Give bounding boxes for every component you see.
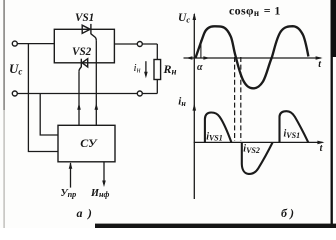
thyristor module box bbox=[54, 29, 114, 63]
svg-text:Uс: Uс bbox=[178, 12, 190, 24]
wire to resistor top bbox=[156, 44, 158, 60]
svg-text:iн: iн bbox=[134, 62, 141, 75]
in time axis bbox=[194, 141, 323, 143]
graph vertical axis bbox=[193, 14, 195, 199]
thyristor VS2 bbox=[79, 59, 88, 72]
wire bottom rail bbox=[17, 93, 157, 95]
left page-edge line bbox=[3, 0, 5, 110]
Upr arrowhead bbox=[69, 162, 73, 169]
wire branch B to CU bbox=[40, 94, 58, 136]
svg-text:VS2: VS2 bbox=[72, 46, 92, 58]
svg-text:iVS1: iVS1 bbox=[206, 131, 223, 142]
terminal right top bbox=[137, 42, 142, 47]
svg-text:б ): б ) bbox=[281, 206, 294, 220]
svg-text:VS1: VS1 bbox=[75, 12, 94, 24]
wire branch A to CU bbox=[28, 44, 58, 152]
svg-text:cosφн = 1: cosφн = 1 bbox=[229, 4, 281, 18]
svg-text:iVS1: iVS1 bbox=[284, 129, 301, 140]
Uc axis arrowhead bbox=[193, 13, 197, 20]
svg-text:а ): а ) bbox=[77, 206, 94, 220]
thyristor VS1 bbox=[82, 24, 96, 41]
svg-text:α: α bbox=[197, 62, 203, 73]
current pulse iVS1 second bbox=[280, 111, 309, 142]
gate VS1 arrowhead bbox=[95, 103, 99, 110]
wire gate VS1 bbox=[95, 41, 97, 126]
bottom page-edge black strip bbox=[95, 224, 336, 228]
wire Upr input bbox=[70, 163, 72, 188]
in axis arrowhead bbox=[193, 103, 197, 110]
svg-text:Инф: Инф bbox=[90, 188, 109, 199]
current pulse iVS1 first bbox=[205, 112, 232, 142]
svg-text:СУ: СУ bbox=[80, 136, 98, 150]
svg-text:Uс: Uс bbox=[9, 61, 22, 77]
gate VS2 arrowhead bbox=[77, 103, 81, 110]
Uc time axis bbox=[184, 57, 321, 59]
svg-text:iVS2: iVS2 bbox=[243, 144, 260, 155]
Uc axis right arrowhead bbox=[316, 56, 323, 60]
Uc sine wave bbox=[196, 26, 309, 88]
svg-text:Rн: Rн bbox=[163, 62, 177, 77]
terminal left bottom bbox=[12, 91, 17, 96]
svg-text:t: t bbox=[318, 59, 322, 70]
terminal right bottom bbox=[137, 91, 142, 96]
alpha dimension left arrow bbox=[186, 56, 192, 59]
wire resistor bottom bbox=[156, 80, 158, 94]
svg-text:Упр: Упр bbox=[61, 188, 77, 199]
in axis right arrowhead bbox=[317, 141, 324, 145]
dashed line VS2 firing bbox=[240, 57, 242, 141]
alpha marker line bbox=[200, 40, 202, 58]
wire top rail bbox=[17, 43, 54, 45]
alpha dimension right arrow bbox=[203, 56, 209, 59]
wire Inf output bbox=[103, 162, 105, 184]
wire gate VS2 bbox=[78, 72, 80, 126]
current pulse iVS2 bbox=[242, 142, 273, 174]
resistor Rn bbox=[154, 60, 161, 80]
terminal left top bbox=[12, 41, 17, 46]
right page-edge black bar bbox=[331, 0, 336, 57]
Inf arrowhead bbox=[102, 181, 106, 188]
dashed line zero crossing bbox=[234, 57, 236, 141]
svg-text:iн: iн bbox=[178, 95, 186, 108]
control unit CU box bbox=[58, 125, 115, 162]
svg-text:t: t bbox=[320, 143, 324, 154]
wire module to right terminal bbox=[114, 43, 157, 45]
